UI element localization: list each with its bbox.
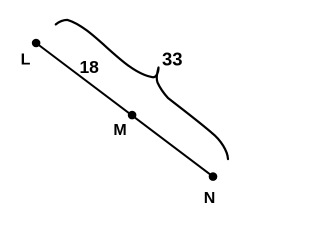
node M dot bbox=[128, 111, 137, 120]
svg-text:N: N bbox=[204, 190, 216, 207]
wire segment L-N bbox=[36, 43, 213, 177]
svg-text:L: L bbox=[21, 52, 31, 69]
node N dot bbox=[209, 172, 218, 181]
brace over L-N bbox=[56, 20, 228, 159]
svg-text:18: 18 bbox=[79, 57, 99, 77]
svg-text:M: M bbox=[113, 122, 126, 139]
node L dot bbox=[32, 39, 41, 48]
svg-text:33: 33 bbox=[162, 49, 183, 70]
